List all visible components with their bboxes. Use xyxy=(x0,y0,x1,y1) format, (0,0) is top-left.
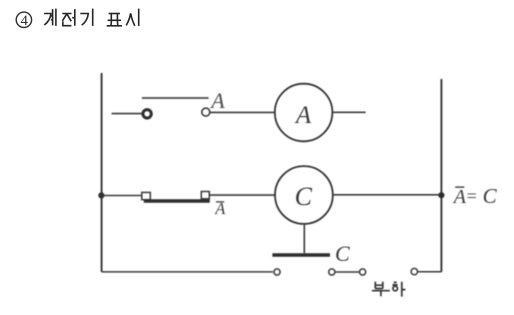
contact C left terminal xyxy=(274,269,280,275)
title: circled 4 xyxy=(16,12,31,29)
link: coil C to contact C bar xyxy=(303,224,305,253)
wire: coil A to right (open end) xyxy=(332,111,365,113)
svg-text:C: C xyxy=(335,241,350,266)
부 xyxy=(375,282,383,289)
wire: left rail to contact A left terminal xyxy=(112,113,142,115)
left rail xyxy=(101,73,103,272)
contact A right terminal xyxy=(202,108,210,116)
coil A circle xyxy=(275,84,333,142)
coil C circle xyxy=(275,166,333,224)
title: hangul 계전기 표시 (drawn strokes) xyxy=(44,9,139,26)
svg-text:A: A xyxy=(294,102,312,129)
svg-text:A: A xyxy=(452,186,467,208)
시 xyxy=(126,13,135,26)
wire: contact A to coil A xyxy=(210,111,275,113)
svg-text:C: C xyxy=(483,184,498,208)
label A-bar = C xyxy=(452,184,498,208)
junction dot: left rail / middle row xyxy=(98,192,104,198)
contact A-bar left terminal (square) xyxy=(142,192,151,199)
junction dot: right rail / middle row xyxy=(438,192,444,198)
svg-text:=: = xyxy=(467,186,477,206)
wire: coil C to right rail xyxy=(333,194,442,196)
svg-text:4: 4 xyxy=(21,13,29,29)
wire: contact A-bar to coil C xyxy=(209,194,275,196)
wire: contact C to load terminal xyxy=(335,271,359,273)
contact A-bar bridge bar (closed) xyxy=(144,199,210,202)
schematic group xyxy=(98,73,497,297)
contact C right terminal xyxy=(329,269,335,275)
contact C bar (relay armature) xyxy=(272,253,330,256)
load right terminal xyxy=(411,268,417,274)
wire: load terminal to right rail xyxy=(418,271,441,273)
wire: left rail to contact A-bar xyxy=(101,195,141,197)
contact A-bar right terminal (square) xyxy=(201,192,209,199)
svg-text:C: C xyxy=(295,182,313,211)
label 부하 (load, drawn strokes) xyxy=(372,282,406,297)
svg-text:A: A xyxy=(209,88,225,113)
하 xyxy=(392,282,397,285)
contact A left terminal (bold circle) xyxy=(143,110,151,118)
right rail xyxy=(440,79,442,272)
load left terminal xyxy=(360,269,366,275)
wire: bottom left run xyxy=(102,271,273,273)
기 xyxy=(80,14,88,26)
표 xyxy=(109,13,120,15)
계 xyxy=(44,14,51,26)
label A-bar (contact) xyxy=(214,199,226,218)
전 xyxy=(62,14,71,22)
contact A armature bar xyxy=(142,97,209,99)
